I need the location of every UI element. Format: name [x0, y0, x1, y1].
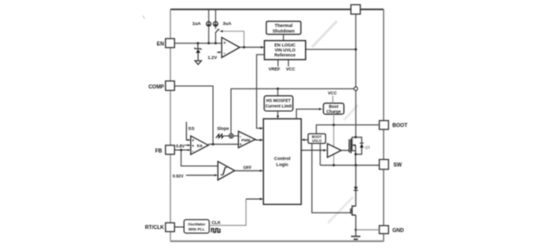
watermark streak B — [344, 105, 358, 120]
svg-text:3uA: 3uA — [223, 21, 232, 26]
svg-text:FB: FB — [155, 148, 162, 154]
current source I2 3uA — [215, 10, 217, 22]
svg-text:EN: EN — [157, 41, 164, 47]
node EA output junction — [212, 143, 214, 145]
node GND dot — [355, 229, 357, 231]
node FB junction — [180, 149, 182, 151]
pin RT/CLK — [166, 223, 175, 232]
node VIN sense dot — [355, 48, 357, 50]
wire SW rail — [320, 164, 379, 166]
node HS current limit tap dot — [277, 88, 279, 90]
svg-text:BOOT: BOOT — [392, 123, 408, 129]
block HS MOSFET Current Limit — [264, 96, 293, 111]
wire Q2 source to ground — [355, 215, 357, 236]
svg-text:Q1: Q1 — [365, 145, 370, 149]
wire control logic to boot charge — [296, 109, 320, 119]
svg-text:GND: GND — [392, 228, 404, 234]
pin VIN (top) — [351, 5, 360, 14]
ground (power ground) — [351, 235, 360, 237]
switch for 3uA hysteresis current — [215, 26, 217, 29]
block BOOT UVLO — [308, 134, 326, 144]
wire boot uvlo to control logic — [304, 139, 309, 141]
wire VCC stub to boot charge — [332, 96, 334, 103]
border right — [383, 9, 385, 241]
svg-text:RT/CLK: RT/CLK — [145, 225, 164, 231]
svg-text:VCC: VCC — [328, 91, 337, 96]
node summing junction — [229, 134, 233, 138]
op-amp OV hysteretic comparator — [218, 161, 235, 180]
node 3uA tap — [214, 42, 216, 44]
wire SW down to diode — [355, 165, 357, 186]
wire driver to gate — [341, 149, 349, 151]
border left — [169, 9, 171, 241]
wire driver bottom to SW rail — [333, 154, 335, 165]
svg-text:Reference: Reference — [274, 52, 296, 57]
wire 1.2V ref stub — [217, 51, 219, 53]
border bottom — [170, 240, 383, 242]
wire VIN pin down to node — [355, 14, 357, 89]
wire sawtooth to summer — [224, 135, 230, 137]
pin EN — [166, 39, 175, 48]
wire EN comparator output — [240, 46, 264, 48]
wire boot charge down to rail and driver — [333, 114, 335, 147]
wire BOOT rail — [316, 125, 379, 134]
op-amp EN comparator — [222, 37, 240, 57]
border top — [170, 8, 383, 10]
wire VREF stub — [277, 60, 279, 67]
pin GND — [379, 226, 388, 234]
wire GND node to GND pin — [356, 229, 380, 231]
wire HS current limit to control logic — [277, 111, 279, 118]
svg-text:1uA: 1uA — [192, 21, 201, 26]
svg-text:VCC: VCC — [286, 67, 296, 72]
pin FB — [166, 145, 175, 154]
block Thermal Shutdown — [266, 21, 301, 34]
transistor Q1 high-side MOSFET — [348, 139, 350, 152]
wire CLK to control logic — [209, 199, 246, 225]
node Q1 drain dot — [354, 136, 356, 138]
svg-text:COMP: COMP — [148, 84, 164, 90]
svg-text:VREF: VREF — [269, 67, 281, 72]
svg-text:With PLL: With PLL — [188, 227, 205, 231]
node Q1 source dot — [354, 153, 356, 155]
watermark streak C — [328, 197, 353, 223]
diode low-side D1 — [354, 187, 358, 190]
zener diode 1.2V clamp — [197, 43, 199, 49]
svg-text:Shutdown: Shutdown — [272, 29, 294, 34]
wire SS stub — [186, 122, 188, 140]
ground (EN zener) — [195, 61, 202, 65]
pin BOOT — [379, 121, 388, 130]
block Oscillator With PLL — [184, 220, 209, 234]
svg-text:PWM: PWM — [241, 139, 250, 143]
wire control logic to gate driver — [301, 149, 324, 151]
svg-text:0.8V: 0.8V — [176, 143, 185, 148]
wire OV output to control logic — [235, 170, 262, 172]
svg-text:Control: Control — [274, 156, 290, 161]
svg-text:OFF: OFF — [243, 165, 252, 170]
wire FB pin to EA — [175, 149, 189, 151]
clock waveform symbol — [212, 229, 220, 233]
svg-text:CLK: CLK — [212, 220, 222, 225]
block Boot Charge — [323, 103, 344, 114]
watermark tick top-left — [143, 16, 145, 19]
svg-text:0.92V: 0.92V — [173, 173, 184, 178]
block Control Logic — [263, 119, 301, 205]
wire FB to OV comparator top input — [181, 150, 218, 166]
wire VCC stub — [287, 60, 289, 67]
wire RT/CLK pin to oscillator — [175, 226, 185, 228]
svg-text:SS: SS — [188, 126, 195, 132]
wire EN logic box to VIN rail — [306, 48, 356, 50]
node SW dot — [355, 164, 357, 166]
transistor Q2 low-side pulldown MOSFET — [352, 206, 356, 215]
wire hysteresis feedback — [221, 31, 245, 47]
svg-text:1.2V: 1.2V — [208, 55, 218, 60]
svg-text:UVLO: UVLO — [312, 139, 322, 143]
pin COMP — [166, 81, 175, 90]
node 1uA tap — [208, 42, 210, 44]
watermark streak A — [312, 21, 337, 47]
wire diode to Q2 — [355, 190, 357, 206]
wire EN logic enable to control logic — [257, 55, 265, 129]
wire rail to HS current limit box — [277, 89, 279, 96]
diode body diode of Q1 — [356, 137, 362, 154]
wire VIN node down to Q1 drain — [355, 89, 357, 138]
node VIN open circle — [354, 87, 358, 91]
svg-text:Slope: Slope — [217, 126, 230, 131]
wire VIN rail horizontal — [231, 89, 356, 134]
node boot rail dot — [333, 124, 335, 126]
wire Q1 body-source vertical — [355, 145, 357, 165]
wire boot uvlo to low-side gate — [312, 143, 351, 212]
wire thermal shutdown to EN logic — [282, 34, 284, 40]
block EN LOGIC / VIN UVLO / Reference — [264, 41, 305, 60]
current source I1 1uA — [208, 10, 210, 22]
op-amp gate driver U2 — [327, 144, 341, 158]
op-amp EA error amplifier — [191, 136, 209, 155]
svg-text:Charge: Charge — [326, 109, 341, 114]
wire PWM output to control logic — [255, 139, 261, 141]
node driver return dot — [333, 164, 335, 166]
node zener tap — [197, 42, 199, 44]
wire COMP pin to EA output — [175, 86, 214, 144]
wire EA output to PWM comparator — [208, 143, 238, 145]
svg-text:Thermal: Thermal — [275, 23, 293, 28]
pin SW — [379, 160, 388, 170]
wire boot uvlo to SW rail — [319, 143, 321, 165]
svg-text:+: + — [223, 41, 226, 46]
wire summer to PWM — [233, 135, 238, 137]
svg-text:Current Limit: Current Limit — [265, 103, 292, 108]
wire EN pin to comparator — [175, 42, 222, 44]
svg-text:EA: EA — [197, 143, 203, 148]
svg-text:Logic: Logic — [276, 162, 289, 167]
svg-text:SW: SW — [393, 163, 401, 169]
svg-text:Oscillator: Oscillator — [188, 223, 206, 227]
op-amp PWM comparator — [238, 131, 255, 148]
sawtooth slope waveform — [216, 134, 224, 138]
